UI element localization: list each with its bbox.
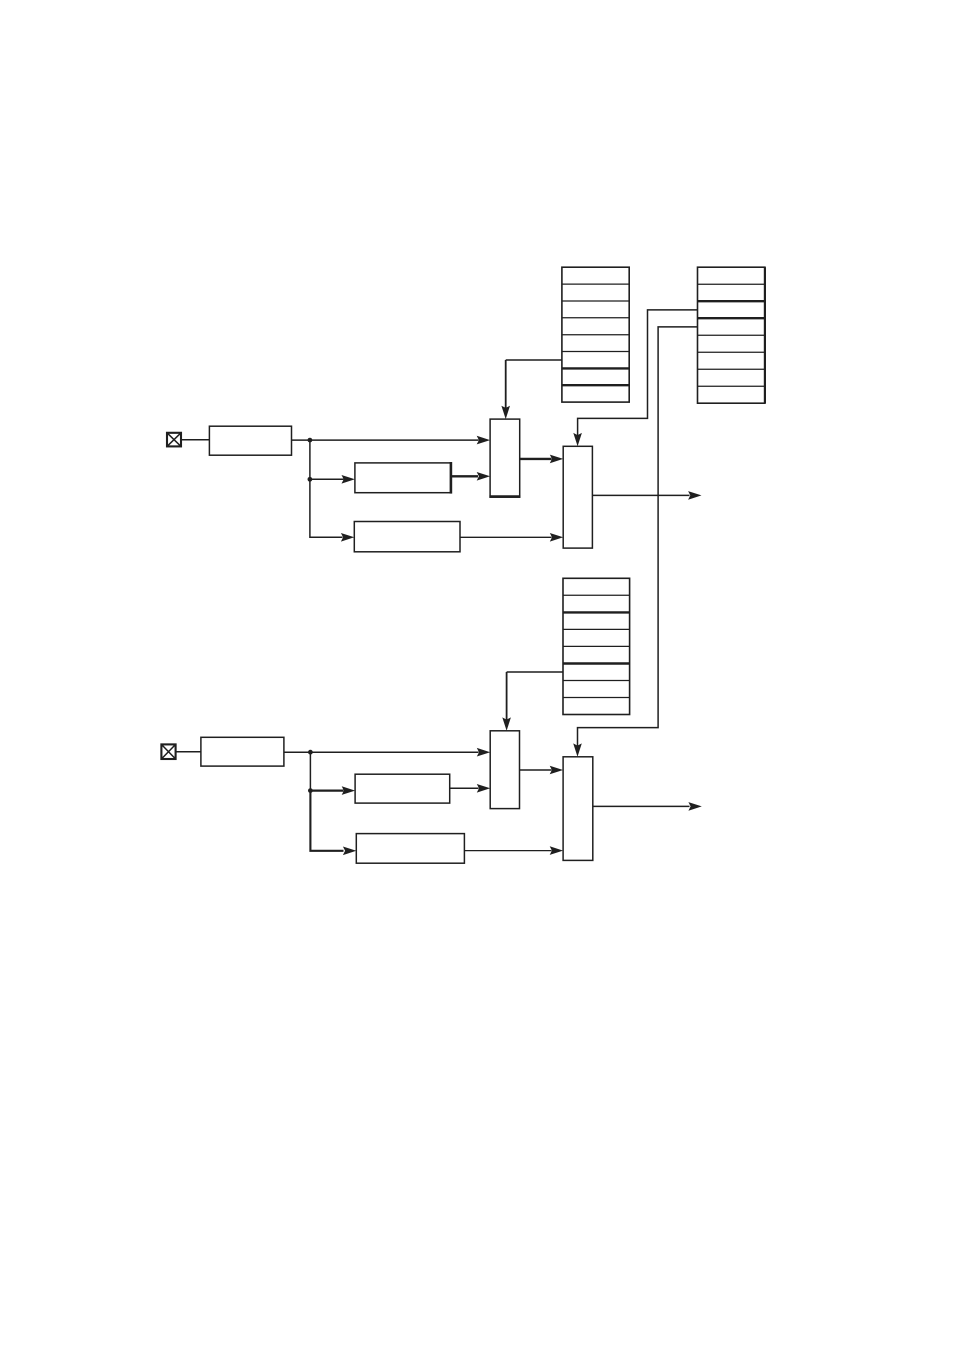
wire N3 to selector S3 input 1 [310,748,490,757]
block B4 (bottom input scaling block) [201,737,284,766]
input terminal X1 (top channel) [167,433,181,447]
output arrow of top channel [592,491,701,500]
node N3 (junction dot) [308,750,313,755]
arrow S3 to S4 [520,766,564,775]
thick arrow N4 to block B5 [310,786,355,795]
parameter table P3 (bottom, 8 rows) [563,578,630,714]
wire B4 to node N3 [284,751,311,753]
node N1 (junction dot) [308,438,313,443]
output arrow of bottom channel [593,802,702,811]
parameter table P1 (top left, 8 rows) [562,267,629,402]
wire N1 down to node N2 [309,440,311,479]
thick arrow B2 to selector S1 input 2 [451,472,490,481]
wire X2 to block B4 [176,751,201,753]
node N2 (junction dot) [308,477,313,482]
wire B1 to node N1 [292,439,310,441]
block B6 (bottom delay block) [356,834,464,864]
selector S1 (top first selector box) [489,419,520,497]
thick arrow S1 to S2 [520,455,564,464]
wire B6 to selector S4 lower input [464,846,563,855]
input terminal X2 (bottom channel) [161,744,175,759]
wire table P3 row6 to selector S3 top [502,672,563,731]
block B1 (top input scaling block) [209,426,291,455]
block B3 (top delay block) [354,522,460,552]
wire N3 down to node N4 [309,752,311,790]
wire B3 to selector S2 lower input [460,533,563,542]
wire N1 to selector S1 input 1 [310,436,490,445]
block B2 (top filter block) [355,462,451,494]
arrow B5 to selector S3 input 2 [450,784,491,793]
wire X1 to block B1 [182,439,210,441]
selector S2 (top second selector box) [563,446,592,548]
wire B: table P2 row4 down to selector S4 top (bottom channel) [573,327,697,757]
wire N2 down and right to block B3 [310,479,354,541]
selector S3 (bottom first selector box) [490,731,519,809]
thick wire N4 down and right to block B6 [310,791,356,856]
parameter table P2 (top right, 8 rows) [698,267,765,403]
selector S4 (bottom second selector box) [563,757,593,861]
node N4 (junction dot) [308,788,313,793]
arrow N2 to block B2 [310,475,355,484]
wire table P1 row6 to selector S1 top [501,360,562,419]
block B5 (bottom filter block) [355,774,450,803]
wire A: table P2 row3 to selector S2 top [573,310,697,446]
